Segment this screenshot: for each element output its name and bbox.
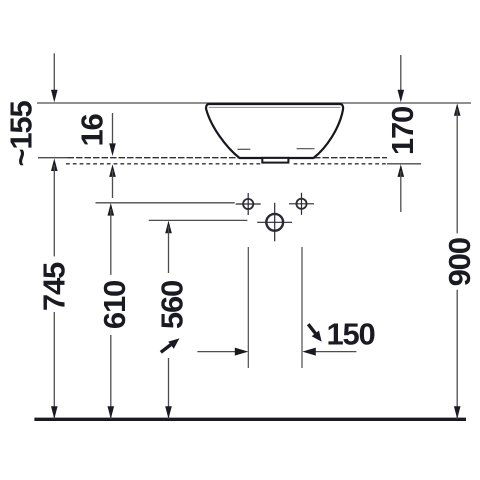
dim 560 extension line [149, 219, 248, 221]
dim 745 down arrowhead [51, 406, 58, 419]
dim ~155 down arrowhead [51, 90, 58, 103]
dim 150 diagonal pointer arrow [308, 324, 322, 342]
dim 560 upper shaft [168, 226, 170, 273]
svg-text:170: 170 [385, 107, 420, 155]
dim 170 upper shaft [400, 55, 402, 91]
washbasin drain flange box [262, 158, 288, 163]
dim 900 lower shaft [456, 290, 458, 419]
dim 745 lower shaft [53, 312, 55, 419]
rim-level reference line [37, 102, 471, 104]
dim 170 lower shaft [400, 171, 402, 212]
svg-text:16: 16 [75, 114, 110, 147]
countertop top edge dashed line [68, 157, 388, 159]
dim 560 diagonal pointer arrow [161, 338, 180, 352]
dim 900 upper shaft [456, 109, 458, 233]
dim 16 down arrowhead [109, 143, 116, 156]
dim 610 extension line [96, 202, 235, 204]
dim 16 up arrowhead [109, 164, 116, 177]
svg-text:745: 745 [36, 262, 71, 311]
dim 560 lower shaft [168, 358, 170, 419]
dim 610 upper shaft [110, 209, 112, 275]
washbasin outline [206, 104, 343, 158]
dim 900 down arrowhead [454, 406, 461, 419]
dim 16 upper shaft [112, 113, 114, 144]
dim 170 up arrowhead [398, 164, 405, 177]
svg-text:900: 900 [442, 238, 477, 286]
svg-text:~155: ~155 [4, 101, 39, 167]
faucet hole right circle with crosshair [289, 193, 314, 215]
dim 150 left extension line [247, 247, 249, 368]
svg-text:150: 150 [326, 316, 374, 351]
dim 610 lower shaft [110, 335, 112, 419]
dim 150 right extension line [301, 247, 303, 368]
dim 745 upper shaft [53, 165, 55, 256]
svg-text:610: 610 [97, 281, 132, 329]
dim 150 left-pointing arrowhead [302, 348, 316, 356]
countertop bottom edge dashed line left part [66, 163, 260, 165]
drain hole circle with crosshair [257, 203, 292, 242]
svg-text:560: 560 [155, 281, 190, 329]
dim 150 right-pointing arrowhead [235, 348, 249, 356]
dim 560 up arrowhead [165, 221, 172, 234]
dim 560 down arrowhead [165, 406, 172, 419]
dim 610 down arrowhead [108, 406, 115, 419]
dim ~155 upper shaft [53, 53, 55, 91]
dim 150 left shaft [197, 351, 237, 353]
dim 745 up arrowhead [51, 158, 58, 171]
dim 150 right shaft [313, 351, 356, 353]
floor line [34, 418, 466, 421]
washbasin inner bottom line left [238, 148, 251, 150]
dim 610 up arrowhead [108, 203, 115, 216]
dim 900 up arrowhead [454, 103, 461, 116]
washbasin inner bottom line right [297, 148, 315, 150]
faucet hole left circle with crosshair [236, 193, 261, 215]
washbasin inner rim line [209, 106, 341, 108]
dim 170 down arrowhead [398, 90, 405, 103]
countertop bottom edge solid extension right [387, 163, 421, 165]
countertop top edge solid left segment [38, 157, 68, 159]
countertop bottom edge dashed line right part [294, 163, 387, 165]
dim 16 lower shaft [112, 170, 114, 198]
